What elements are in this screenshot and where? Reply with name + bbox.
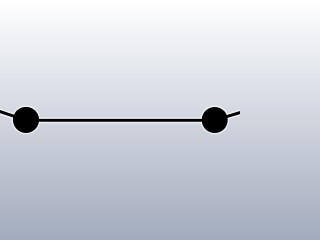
node A (left filled junction dot) [13, 107, 39, 133]
wire from off-canvas left to node A, node A to node B, node B to off-canvas right [0, 108, 252, 121]
node B (right filled junction dot) [202, 107, 228, 133]
node B halo [200, 105, 229, 134]
wire (white casing halo) [0, 108, 252, 121]
node A halo [11, 105, 40, 134]
